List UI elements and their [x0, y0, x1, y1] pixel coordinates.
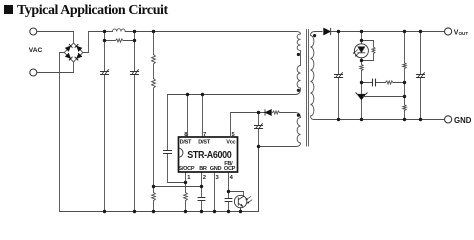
resistor Rocp [184, 193, 188, 201]
terminal Vout [445, 28, 452, 35]
svg-text:4: 4 [230, 175, 234, 181]
terminal VAC top [30, 28, 37, 35]
svg-text:OCP: OCP [224, 166, 236, 172]
choke L1 coil [105, 29, 126, 32]
wire pin3 GND [214, 172, 216, 212]
wire zener to ground rail [361, 100, 363, 120]
output cap C52 (electrolytic) [416, 73, 424, 78]
title bullet square [4, 5, 13, 14]
choke damping resistor zigzag [116, 39, 124, 42]
transformer secondary winding [311, 32, 323, 120]
polarity dot secondary [313, 34, 316, 37]
resistor R3 (BR divider lower) [152, 193, 156, 201]
polarity dot primary bottom [297, 89, 300, 92]
divider branch wire [404, 32, 406, 120]
output cap C51 wire [338, 32, 340, 120]
wire shunt ref [363, 96, 404, 98]
wire VAC bottom to bridge bottom vertex [37, 62, 74, 73]
capacitor compensation [373, 79, 376, 86]
svg-text:GND: GND [210, 166, 222, 172]
svg-text:D/ST: D/ST [180, 139, 192, 145]
svg-text:S/OCP: S/OCP [178, 166, 194, 172]
resistor divider upper [403, 63, 406, 69]
svg-text:GND: GND [454, 116, 472, 125]
photocoupler LED branch wire [361, 32, 363, 95]
wire Vcc pin 5 [231, 113, 259, 138]
output cap C51 (electrolytic) [334, 73, 342, 78]
wire Vcc node to diode [259, 112, 266, 114]
wire to aux winding top [280, 113, 301, 118]
bridge rectifier BD1 diamond [64, 43, 83, 62]
Vcc capacitor wire [258, 113, 260, 212]
wire bridge right vertex to top rail [83, 32, 113, 53]
bus cap C1 (electrolytic) [100, 70, 108, 75]
svg-text:VAC: VAC [29, 47, 43, 54]
diode D2 (Vcc rectifier, pointing left) [265, 110, 271, 116]
svg-text:1: 1 [187, 175, 191, 181]
polarity dot primary [297, 53, 300, 56]
resistor parallel to LED [372, 47, 375, 54]
wire pin1 node [185, 172, 187, 212]
shunt regulator (zener) [356, 93, 368, 100]
bus cap C2 (electrolytic) [130, 70, 138, 75]
wire aux winding bottom return [259, 143, 301, 147]
IC U1 STR-A6000 outline with notch [179, 137, 238, 172]
transformer primary winding upper section [296, 32, 300, 66]
bridge diode top-left [65, 44, 72, 51]
wire bridge left vertex to bottom rail [60, 53, 65, 212]
wire VAC top to bridge top vertex [37, 32, 74, 44]
bridge diode bottom-right [75, 53, 82, 60]
bus cap C2 branch wire [134, 32, 136, 212]
wire pin 7 drop [202, 95, 204, 138]
bottom rail (primary ground) [60, 147, 259, 212]
svg-text:BR: BR [199, 166, 207, 172]
resistor R2 (BR divider middle) [152, 79, 156, 89]
resistor compensation [386, 81, 394, 84]
capacitor BR bypass [198, 198, 205, 201]
svg-text:Typical Application Circuit: Typical Application Circuit [17, 3, 168, 18]
resistor LED series [360, 65, 363, 71]
wire FB to photocoupler collector [229, 192, 244, 197]
svg-text:STR-A6000: STR-A6000 [187, 149, 231, 161]
resistor Vcc series [271, 111, 279, 114]
secondary ground rail [314, 119, 444, 121]
svg-text:7: 7 [203, 132, 206, 138]
transformer T1 core [307, 30, 309, 147]
terminal VAC bottom [30, 69, 37, 76]
svg-text:D/ST: D/ST [198, 139, 210, 145]
drain snubber capacitor plates [163, 151, 171, 154]
bridge diode top-right [75, 44, 82, 51]
svg-text:Vcc: Vcc [226, 139, 235, 145]
polarity dot aux [297, 114, 300, 117]
resistor divider lower [403, 105, 406, 111]
LED parallel resistor box [362, 41, 374, 61]
resistor R1 (BR divider upper) [152, 55, 156, 65]
capacitor FB [225, 199, 232, 202]
wire pin4 FB node [228, 172, 230, 212]
choke damping resistor line [105, 40, 135, 42]
secondary top rail to Vout [331, 31, 445, 33]
top rail: choke to transformer [125, 31, 296, 33]
svg-text:2: 2 [203, 175, 206, 181]
bridge diode bottom-left [65, 53, 72, 60]
wire pin2 BR [201, 172, 203, 212]
photocoupler PC1 phototransistor [234, 195, 252, 211]
svg-text:VOUT: VOUT [454, 29, 469, 36]
output cap C52 wire [420, 32, 422, 120]
Vcc capacitor (electrolytic) [254, 124, 262, 129]
compensation branch wire [362, 82, 405, 84]
diode D51 secondary rectifier [324, 28, 331, 35]
wire BR node to pin 2 [154, 186, 202, 188]
photocoupler PC1 LED [353, 44, 368, 58]
wire pin 8 drop [187, 95, 189, 138]
BR divider wire [153, 32, 155, 212]
drain snubber capacitor wire [168, 95, 186, 183]
drain line D/ST [168, 89, 301, 95]
transformer primary winding lower section [297, 66, 300, 89]
transformer aux winding [297, 118, 300, 144]
terminal GND [445, 116, 452, 123]
svg-text:3: 3 [216, 175, 220, 181]
bus cap C1 branch wire [104, 32, 106, 212]
